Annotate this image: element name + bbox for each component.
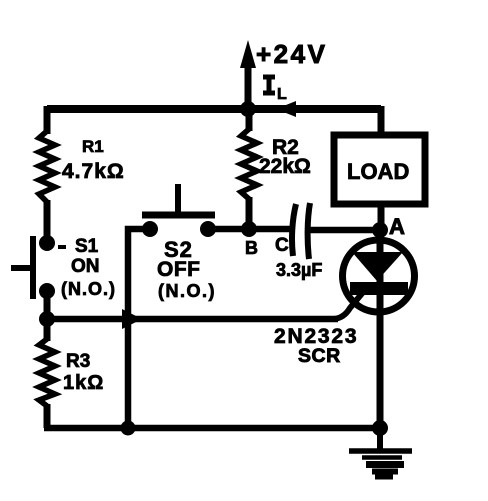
wire top rail <box>47 105 381 113</box>
svg-text:OFF: OFF <box>157 258 201 281</box>
switch S1 stem <box>11 265 33 271</box>
switch S1 actuator bar <box>30 236 36 299</box>
svg-text:4.7kΩ: 4.7kΩ <box>62 160 125 183</box>
svg-text:+24V: +24V <box>256 39 327 69</box>
wire S2 left contact down to bottom rail <box>128 229 150 428</box>
label R3 value <box>63 351 104 394</box>
wire S2 right contact to node B <box>208 226 291 233</box>
svg-text:C: C <box>275 235 289 256</box>
node junction S1/R3/gate <box>39 311 55 327</box>
switch S2 stem <box>175 184 181 215</box>
svg-text:(N.O.): (N.O.) <box>61 279 116 299</box>
label S2 <box>157 237 216 301</box>
ground symbol <box>349 451 412 477</box>
wire capacitor to node A <box>310 227 378 234</box>
svg-text:S1: S1 <box>75 236 99 257</box>
switch S2 actuator bar <box>142 212 215 219</box>
wire junction to R3 <box>44 319 51 341</box>
wire R2 top lead <box>246 109 253 131</box>
wire R3 bottom to bottom rail <box>44 404 51 428</box>
label S1 <box>61 236 116 299</box>
scr anode triangle <box>352 252 403 281</box>
svg-text:3.3µF: 3.3µF <box>276 260 322 280</box>
wire SCR vertical anode-cathode <box>377 230 384 428</box>
svg-text:22kΩ: 22kΩ <box>259 155 311 178</box>
load box <box>334 135 425 204</box>
node junction bottom rail / SCR cathode <box>372 420 388 436</box>
wire R2 bottom lead <box>246 197 253 229</box>
label R1 value <box>62 137 125 183</box>
switch S2 contacts <box>142 221 216 237</box>
node junction bottom rail / S2 wire <box>121 421 136 436</box>
svg-text:R3: R3 <box>66 351 90 372</box>
wire ground stem <box>377 428 383 451</box>
label 2N2323 SCR <box>274 325 358 367</box>
svg-text:L: L <box>277 86 287 103</box>
svg-text:R1: R1 <box>82 137 104 156</box>
resistor R2 <box>241 129 257 199</box>
wire bottom rail <box>44 425 381 432</box>
node B <box>241 221 257 237</box>
svg-text:(N.O.): (N.O.) <box>158 281 216 301</box>
svg-text:LOAD: LOAD <box>347 159 409 184</box>
arrow IL on top rail <box>276 101 296 117</box>
resistor R3 <box>39 339 55 406</box>
capacitor C left plate <box>292 204 296 256</box>
arrow on gate wire <box>122 309 142 329</box>
switch S1 contacts <box>39 235 55 299</box>
wire gate rail <box>47 316 338 323</box>
node junction top rail / R2 / supply <box>240 101 256 117</box>
scr U1 circle <box>343 240 415 312</box>
label R2 value <box>259 136 311 178</box>
label C value <box>275 235 322 280</box>
wire top rail to LOAD <box>378 106 385 134</box>
resistor R1 <box>39 131 55 202</box>
wire S1 bottom to junction <box>44 291 51 322</box>
svg-text:B: B <box>245 238 258 258</box>
wire left vertical from top rail to R1 <box>44 106 51 134</box>
scr gate lead <box>334 291 364 319</box>
scr cathode bar <box>350 282 408 295</box>
wire LOAD bottom to node A <box>378 204 385 230</box>
supply +24V arrow <box>240 40 256 109</box>
svg-text:ON: ON <box>71 256 100 277</box>
svg-text:1kΩ: 1kΩ <box>63 372 104 394</box>
label IL current <box>263 77 287 103</box>
wire R1 bottom to S1 top contact <box>44 200 51 243</box>
svg-text:SCR: SCR <box>298 345 341 367</box>
label S1 dash <box>58 245 66 249</box>
capacitor C right plate <box>308 203 310 259</box>
node A <box>372 222 388 238</box>
svg-text:A: A <box>389 214 405 239</box>
